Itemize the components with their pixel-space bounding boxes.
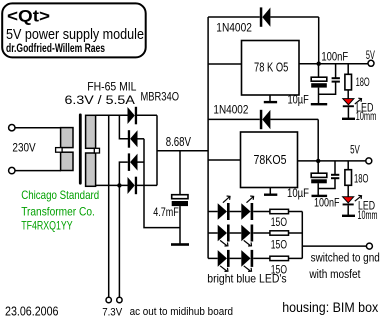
node 230V input terminal bottom	[9, 167, 15, 173]
resistor R3 150	[270, 209, 289, 213]
regulator U1 78K05	[242, 41, 300, 96]
arrow row1 LED A	[223, 196, 230, 203]
svg-text:ac out to midihub board: ac out to midihub board	[130, 306, 233, 318]
svg-text:<Qt>: <Qt>	[7, 8, 50, 26]
svg-text:18O: 18O	[354, 172, 369, 186]
node ac out terminal 1	[106, 297, 111, 302]
resistor R2 180	[345, 161, 352, 197]
wire AC1 drop to ac-out	[108, 115, 110, 297]
wire AC1 to D2	[119, 115, 128, 139]
svg-text:78 K O5: 78 K O5	[254, 61, 288, 75]
svg-text:1N4002: 1N4002	[213, 103, 248, 117]
svg-text:5V: 5V	[366, 48, 375, 62]
wire U1 output rail	[299, 63, 368, 65]
svg-text:bright blue LED's: bright blue LED's	[207, 272, 286, 286]
ground for D8	[342, 215, 355, 217]
capacitor C5 100nF	[318, 161, 339, 189]
arrow row3 LED A	[220, 266, 228, 272]
svg-text:8.68V: 8.68V	[166, 135, 192, 149]
wire primary bottom	[15, 170, 61, 172]
svg-text:100nF: 100nF	[314, 196, 340, 210]
ground for D7	[342, 118, 355, 120]
wire plus rail vertical	[156, 115, 158, 185]
wire U1 input	[208, 63, 241, 65]
svg-text:15O: 15O	[271, 217, 287, 229]
resistor R5 150	[270, 256, 289, 260]
LED D8 red 10mm	[343, 197, 354, 215]
wire D5 output drop	[318, 17, 320, 64]
wire row2 to collector	[289, 232, 303, 234]
arrow row2 LED B	[244, 240, 252, 246]
blue LED row 2	[208, 225, 270, 242]
diode D6 1N4002	[208, 110, 318, 129]
ground for C4	[312, 195, 328, 197]
ground U1	[264, 95, 277, 103]
svg-text:10µF: 10µF	[287, 186, 309, 200]
node 5V terminal 1	[368, 60, 374, 66]
svg-text:switched to gnd: switched to gnd	[311, 253, 380, 265]
svg-text:TF4RXQ1YY: TF4RXQ1YY	[21, 218, 72, 232]
ground for C1	[171, 243, 189, 246]
wire to mosfet terminal	[302, 245, 366, 247]
wire row3 to collector	[289, 257, 303, 259]
svg-text:FH-65 MIL: FH-65 MIL	[87, 80, 137, 94]
svg-text:230V: 230V	[12, 143, 36, 155]
diode D2 MBR340	[128, 130, 144, 148]
wire U2 output rail	[298, 160, 367, 162]
arrow row3 LED B	[244, 266, 252, 272]
svg-text:6.3V / 5.5A: 6.3V / 5.5A	[65, 95, 136, 107]
wire D6 output drop	[317, 119, 319, 160]
wire row1 to collector	[289, 211, 303, 213]
svg-text:5V: 5V	[350, 143, 360, 157]
node junction AC2	[117, 183, 121, 187]
svg-text:15O: 15O	[271, 240, 287, 252]
regulator U2 78K05	[241, 132, 298, 188]
ground U2	[264, 188, 277, 196]
svg-text:Chicago Standard: Chicago Standard	[21, 188, 99, 202]
diode D5 1N4002	[208, 7, 319, 26]
node 5V terminal 2	[366, 158, 372, 164]
resistor R1 180	[345, 64, 352, 99]
resistor R4 150	[270, 231, 289, 235]
node mosfet terminal	[366, 243, 372, 249]
wire main 8.68V vertical distribution	[207, 17, 209, 258]
wire 8.68V rail	[157, 150, 208, 152]
wire primary top	[15, 127, 61, 129]
svg-text:18O: 18O	[356, 75, 370, 89]
svg-text:with mosfet: with mosfet	[309, 269, 362, 281]
svg-text:100nF: 100nF	[321, 50, 348, 64]
svg-text:MBR34O: MBR34O	[141, 90, 180, 104]
node ac out terminal 2	[117, 297, 122, 302]
capacitor C2 10uF	[311, 64, 327, 104]
arrow row2 LED A	[220, 240, 228, 246]
svg-text:4.7mF: 4.7mF	[153, 205, 179, 219]
blue LED row 3	[208, 250, 270, 267]
svg-text:housing: BIM box: housing: BIM box	[282, 299, 378, 315]
transformer T1 secondary winding	[86, 115, 100, 186]
wire AC2 drop to ac-out	[118, 185, 120, 297]
arrow LED2	[355, 195, 362, 201]
node junction U1 out	[317, 62, 321, 66]
node junction U2 out	[316, 159, 320, 163]
svg-text:1N4002: 1N4002	[216, 21, 252, 35]
capacitor C1 4.7mF	[172, 151, 188, 244]
svg-text:7.3V: 7.3V	[102, 307, 123, 319]
wire minus rail	[144, 139, 180, 228]
node 230V input terminal top	[9, 125, 15, 131]
ground for C2	[311, 103, 327, 105]
svg-text:10µF: 10µF	[288, 92, 309, 106]
svg-text:23.06.2006: 23.06.2006	[5, 303, 59, 318]
diode D1 MBR340	[128, 107, 158, 125]
wire U2 input	[208, 159, 240, 161]
wire AC2 bottom	[96, 184, 128, 186]
title box	[2, 3, 146, 57]
transformer T1 primary winding	[56, 128, 73, 171]
svg-text:5V power supply module: 5V power supply module	[6, 26, 144, 43]
svg-text:10mm: 10mm	[356, 109, 377, 123]
wire LED collector vertical	[301, 212, 303, 259]
wire AC1 top	[96, 114, 128, 116]
LED D7 red 10mm	[343, 99, 354, 118]
diode D3 MBR340	[119, 153, 144, 185]
capacitor C4 10uF	[311, 161, 327, 195]
svg-text:dr.Godfried-Willem Raes: dr.Godfried-Willem Raes	[6, 43, 105, 55]
capacitor C3 100nF	[319, 64, 340, 94]
svg-text:78KO5: 78KO5	[254, 153, 287, 167]
arrow row1 LED B	[247, 196, 254, 203]
arrow LED1	[355, 98, 362, 104]
diode D4 MBR340	[128, 177, 158, 195]
transformer T1 core	[79, 114, 82, 185]
blue LED row 1	[208, 203, 270, 220]
svg-text:10mm: 10mm	[358, 208, 378, 222]
svg-text:Transformer Co.: Transformer Co.	[21, 204, 95, 218]
